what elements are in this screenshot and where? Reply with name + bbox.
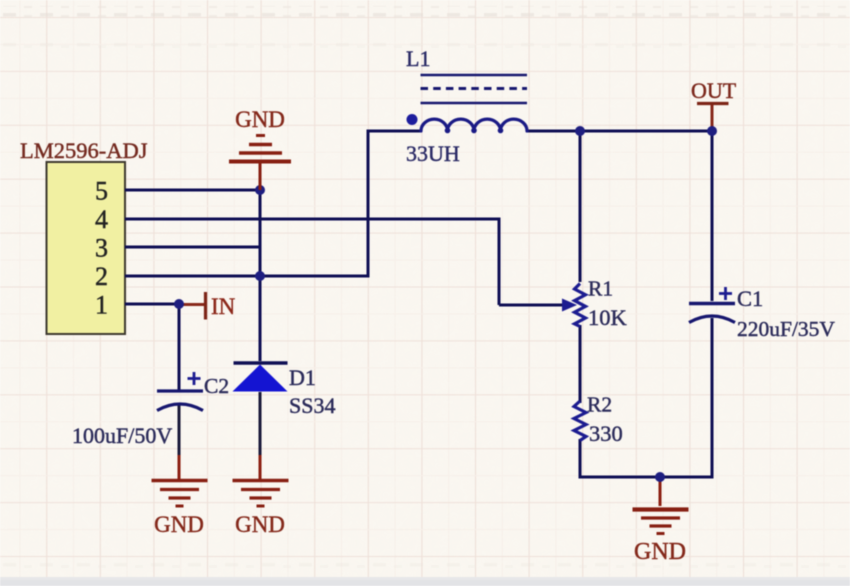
pin 1	[95, 291, 108, 320]
label GND under D1	[235, 512, 285, 537]
svg-text:R1: R1	[588, 277, 613, 301]
svg-text:100uF/50V: 100uF/50V	[72, 423, 172, 448]
wire pin4 vertical drop	[498, 218, 501, 306]
junction pin1-IN-C2	[174, 299, 184, 309]
svg-text:33UH: 33UH	[406, 141, 460, 166]
wire pin5 to GND junction	[125, 189, 260, 192]
svg-text:C2: C2	[204, 374, 229, 398]
port IN bar	[204, 292, 207, 320]
svg-text:5: 5	[95, 177, 108, 206]
capacitor C2 top plate	[157, 389, 203, 392]
label IN	[211, 294, 236, 319]
inductor L1 core dashed bar	[421, 87, 528, 90]
wire L1 right to junction	[527, 130, 580, 133]
inductor L1 core bottom bar	[421, 102, 528, 105]
IC U1 LM2596-ADJ body	[47, 162, 126, 334]
wire bottom ground rail	[579, 476, 714, 479]
wire C1 lower	[711, 318, 714, 479]
wire R2 bottom vertical	[579, 439, 582, 479]
wire pin4 horizontal	[125, 218, 501, 221]
pin 5	[95, 177, 108, 206]
junction bottom ground	[655, 472, 665, 482]
wire R1 to R2 vertical	[579, 325, 582, 403]
capacitor C1 plus sign	[719, 287, 732, 300]
label C2	[204, 374, 229, 398]
svg-text:IN: IN	[211, 294, 236, 319]
value 220uF/35V	[737, 317, 835, 341]
inductor L1 winding	[421, 119, 527, 133]
wire D1 ground stub	[259, 455, 262, 479]
ground GND under D1	[233, 481, 289, 507]
svg-text:2: 2	[95, 262, 108, 291]
wire C2 drop	[178, 304, 181, 390]
label R2	[587, 393, 612, 417]
value 100uF/50V	[72, 423, 172, 448]
diode D1 body	[233, 365, 288, 392]
value 10K	[588, 305, 628, 330]
svg-text:OUT: OUT	[691, 78, 737, 103]
label R1	[588, 277, 613, 301]
wire pin2 horizontal	[125, 275, 370, 278]
wire C2 lower stub	[178, 404, 181, 455]
wire C1 drop	[711, 131, 714, 301]
svg-text:LM2596-ADJ: LM2596-ADJ	[20, 138, 148, 163]
svg-text:R2: R2	[587, 393, 612, 417]
capacitor C1 top plate	[689, 302, 735, 305]
wire pin3	[125, 246, 261, 249]
svg-text:GND: GND	[634, 539, 686, 565]
resistor R2 zigzag	[574, 401, 586, 441]
svg-text:SS34: SS34	[289, 393, 335, 418]
value 330	[589, 421, 623, 446]
label L1	[406, 46, 430, 71]
svg-text:C1: C1	[737, 286, 763, 311]
label D1	[289, 365, 316, 390]
wire feedback vertical upper	[259, 190, 262, 276]
label OUT	[691, 78, 737, 103]
wire C2 ground stub	[178, 455, 181, 479]
svg-text:GND: GND	[154, 512, 204, 537]
value SS34	[289, 393, 335, 418]
svg-text:4: 4	[95, 205, 108, 234]
junction L1-R1	[575, 126, 585, 136]
capacitor C2 plus sign	[188, 372, 201, 385]
ground GND under C2	[152, 481, 208, 507]
svg-text:330: 330	[589, 421, 623, 446]
wire feedback vertical to D1	[259, 276, 262, 361]
capacitor C2 curved plate	[157, 404, 203, 411]
potentiometer R1 zigzag	[575, 284, 586, 327]
junction pin2-feedback	[255, 271, 265, 281]
inductor L1 core top bar	[421, 74, 528, 77]
wire to L1 left	[368, 130, 421, 133]
pin 4	[95, 205, 108, 234]
label GND top	[235, 107, 285, 132]
svg-text:1: 1	[95, 291, 108, 320]
wire to R1 wiper	[499, 304, 564, 307]
wire D1 lower stub	[259, 392, 262, 455]
label LM2596-ADJ	[20, 138, 148, 163]
wire R1 top vertical	[579, 130, 582, 283]
value 33UH	[406, 141, 460, 166]
potentiometer R1 wiper arrow	[562, 299, 577, 312]
svg-text:L1: L1	[406, 46, 430, 71]
diode D1 cathode bar	[234, 361, 288, 364]
wire bottom ground stub	[659, 477, 662, 506]
svg-text:3: 3	[95, 234, 108, 263]
wire output node horizontal	[580, 130, 712, 133]
svg-text:220uF/35V: 220uF/35V	[737, 317, 835, 341]
junction OUT-C1	[707, 126, 717, 136]
ground GND top power port	[229, 136, 291, 191]
port OUT bar	[697, 102, 729, 105]
svg-text:D1: D1	[289, 365, 316, 390]
label GND bottom right	[634, 539, 686, 565]
wire IN port segment	[179, 303, 204, 306]
label GND under C2	[154, 512, 204, 537]
wire OUT port stub	[711, 105, 714, 132]
pin 3	[95, 234, 108, 263]
wire switch node vertical	[367, 130, 370, 278]
inductor L1 polarity dot	[407, 114, 418, 125]
pin 2	[95, 262, 108, 291]
wire pin1	[125, 303, 179, 306]
svg-text:10K: 10K	[588, 305, 628, 330]
label C1	[737, 286, 763, 311]
junction pin5-GND	[255, 185, 265, 195]
ground GND bottom right	[633, 510, 689, 534]
svg-text:GND: GND	[235, 512, 285, 537]
svg-text:GND: GND	[235, 107, 285, 132]
capacitor C1 curved plate	[689, 316, 735, 323]
